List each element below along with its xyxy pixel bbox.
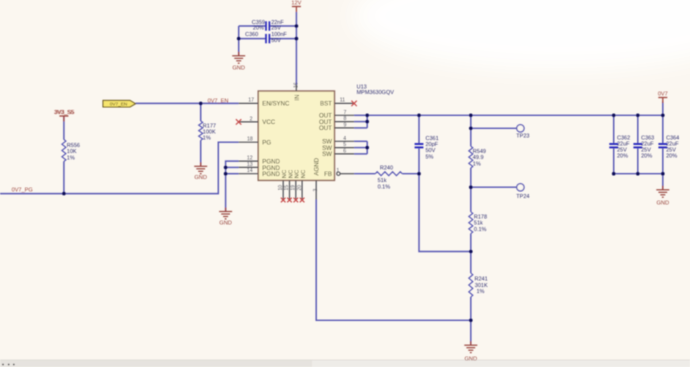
svg-text:GND: GND: [232, 66, 245, 72]
svg-text:3V3_S5: 3V3_S5: [55, 110, 75, 116]
svg-text:1%: 1%: [473, 161, 481, 167]
svg-text:100K: 100K: [203, 130, 216, 136]
svg-text:R549: R549: [473, 149, 486, 155]
svg-text:51k: 51k: [474, 221, 483, 227]
svg-text:16: 16: [293, 82, 299, 88]
svg-text:8: 8: [344, 116, 347, 122]
svg-text:17: 17: [248, 98, 254, 104]
svg-text:VCC: VCC: [262, 119, 275, 126]
svg-text:20%: 20%: [253, 26, 264, 32]
svg-text:FB: FB: [324, 171, 332, 178]
svg-text:PG: PG: [262, 140, 271, 147]
svg-text:R241: R241: [475, 277, 488, 283]
svg-text:12V: 12V: [291, 1, 301, 7]
svg-text:BST: BST: [320, 101, 332, 108]
svg-text:18: 18: [247, 137, 253, 143]
svg-text:GND: GND: [656, 201, 669, 207]
svg-text:20pF: 20pF: [426, 142, 439, 148]
svg-text:12: 12: [247, 156, 253, 162]
svg-text:TP24: TP24: [516, 194, 529, 200]
svg-text:1%: 1%: [67, 155, 75, 161]
svg-text:5%: 5%: [426, 154, 434, 160]
svg-text:NC: NC: [282, 170, 288, 178]
svg-text:5: 5: [343, 142, 346, 148]
svg-text:IN: IN: [294, 95, 301, 101]
svg-text:MPM3630GQV: MPM3630GQV: [357, 90, 395, 96]
svg-text:3: 3: [313, 189, 319, 192]
svg-text:20%: 20%: [641, 153, 652, 159]
svg-text:0V7_PG: 0V7_PG: [12, 188, 33, 194]
svg-text:OUT: OUT: [319, 125, 332, 132]
svg-text:EN/SYNC: EN/SYNC: [262, 101, 290, 108]
svg-text:51k: 51k: [378, 178, 387, 184]
svg-text:0V7_EN: 0V7_EN: [110, 101, 127, 106]
svg-text:NC: NC: [295, 170, 301, 178]
svg-text:20: 20: [297, 185, 303, 191]
svg-text:49.9: 49.9: [473, 155, 484, 161]
svg-text:NC: NC: [301, 170, 307, 178]
svg-text:301K: 301K: [475, 283, 488, 289]
svg-text:PGND: PGND: [262, 171, 280, 178]
svg-text:20%: 20%: [617, 153, 628, 159]
svg-text:GND: GND: [194, 175, 207, 181]
svg-text:0.1%: 0.1%: [378, 184, 391, 190]
svg-text:SW: SW: [322, 151, 332, 158]
svg-text:20%: 20%: [666, 153, 677, 159]
svg-text:25V: 25V: [271, 26, 281, 32]
svg-text:R177: R177: [203, 123, 216, 129]
svg-text:1%: 1%: [477, 289, 485, 295]
svg-text:7: 7: [344, 110, 347, 116]
svg-text:NC: NC: [288, 170, 294, 178]
svg-text:6: 6: [343, 148, 346, 154]
svg-text:R556: R556: [67, 143, 80, 149]
svg-text:50V: 50V: [426, 148, 436, 154]
svg-text:GND: GND: [219, 220, 232, 226]
svg-text:10K: 10K: [67, 149, 77, 155]
svg-text:10: 10: [278, 185, 284, 191]
svg-text:GND: GND: [464, 357, 477, 363]
svg-text:TP23: TP23: [516, 133, 529, 139]
svg-text:15: 15: [284, 185, 290, 191]
svg-text:C360: C360: [245, 32, 258, 38]
svg-text:11: 11: [340, 98, 345, 104]
svg-text:2: 2: [250, 116, 253, 122]
svg-text:R178: R178: [474, 214, 487, 220]
svg-text:0V7_EN: 0V7_EN: [208, 98, 229, 104]
svg-text:4: 4: [343, 136, 346, 142]
svg-text:9: 9: [344, 122, 347, 128]
svg-text:0.1%: 0.1%: [474, 227, 487, 233]
svg-text:0V7: 0V7: [658, 92, 668, 98]
svg-text:C361: C361: [426, 136, 439, 142]
svg-text:AGND: AGND: [314, 157, 321, 175]
svg-text:1%: 1%: [203, 136, 211, 142]
svg-text:19: 19: [291, 185, 297, 191]
svg-text:13: 13: [247, 162, 253, 168]
svg-text:1: 1: [336, 168, 339, 174]
svg-text:50V: 50V: [271, 38, 281, 44]
svg-text:14: 14: [247, 168, 253, 174]
svg-text:R240: R240: [380, 166, 393, 172]
